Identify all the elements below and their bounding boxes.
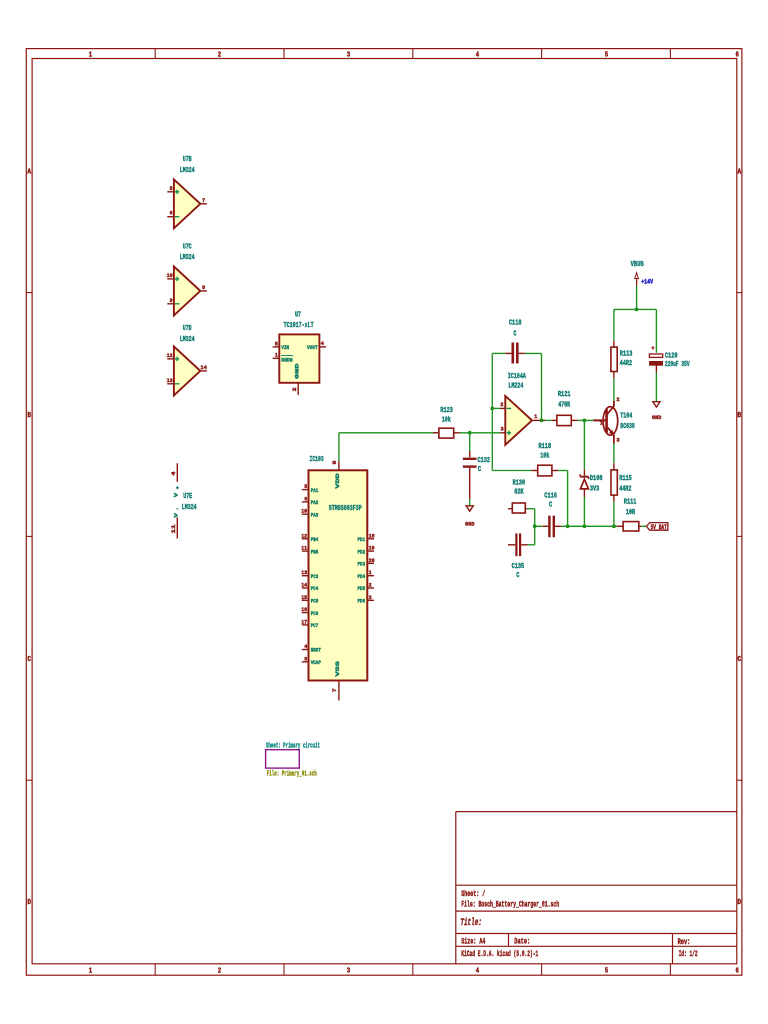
svg-text:GND: GND <box>652 414 662 421</box>
svg-text:C116: C116 <box>544 493 557 501</box>
svg-text:10k: 10k <box>442 416 452 424</box>
svg-text:STM8S003F3P: STM8S003F3P <box>329 505 362 513</box>
svg-text:PD2: PD2 <box>358 548 366 555</box>
svg-text:12: 12 <box>301 532 307 539</box>
svg-text:4: 4 <box>321 340 325 347</box>
svg-text:1: 1 <box>369 569 372 576</box>
svg-text:13: 13 <box>167 377 173 384</box>
svg-text:5: 5 <box>605 968 608 976</box>
svg-text:6: 6 <box>304 495 307 502</box>
svg-text:LM224: LM224 <box>508 382 523 390</box>
svg-text:VSS: VSS <box>334 660 341 676</box>
svg-text:44R2: 44R2 <box>619 486 632 494</box>
svg-text:470R: 470R <box>558 401 570 409</box>
svg-text:10R: 10R <box>626 509 636 517</box>
svg-text:5: 5 <box>170 185 173 192</box>
svg-text:2: 2 <box>369 582 372 589</box>
svg-text:File: Bosch_Battery_Charger_01: File: Bosch_Battery_Charger_01.sch <box>461 900 559 909</box>
svg-text:C: C <box>513 330 517 338</box>
svg-text:82K: 82K <box>514 489 524 497</box>
svg-text:11: 11 <box>301 545 307 552</box>
svg-text:9: 9 <box>331 460 338 465</box>
svg-text:PC5: PC5 <box>311 598 319 605</box>
svg-text:3: 3 <box>501 425 505 432</box>
svg-text:R118: R118 <box>539 443 552 451</box>
svg-text:LM324: LM324 <box>182 504 197 512</box>
svg-text:12: 12 <box>167 352 173 359</box>
svg-text:LM324: LM324 <box>180 254 195 262</box>
svg-text:15: 15 <box>301 594 307 601</box>
svg-text:R113: R113 <box>620 351 633 359</box>
svg-text:C: C <box>516 572 520 580</box>
svg-text:U7: U7 <box>295 311 301 319</box>
svg-text:3: 3 <box>616 437 620 444</box>
svg-text:V: V <box>172 513 179 518</box>
svg-text:VCAP: VCAP <box>311 659 322 666</box>
svg-text:U7B: U7B <box>183 156 192 164</box>
svg-text:3: 3 <box>347 51 350 59</box>
svg-text:5V_BAT: 5V_BAT <box>651 524 667 531</box>
svg-text:File: Primary_01.sch: File: Primary_01.sch <box>267 771 317 779</box>
svg-text:14: 14 <box>200 364 207 371</box>
svg-text:PA3: PA3 <box>311 511 319 518</box>
svg-text:6: 6 <box>736 968 739 976</box>
svg-text:PD4: PD4 <box>358 573 366 580</box>
svg-text:PD5: PD5 <box>358 585 366 592</box>
svg-text:PD6: PD6 <box>358 598 366 605</box>
svg-text:8: 8 <box>202 284 206 291</box>
svg-text:5: 5 <box>605 51 608 59</box>
svg-text:9: 9 <box>170 297 173 304</box>
svg-text:C: C <box>27 656 31 664</box>
svg-text:1: 1 <box>89 51 92 59</box>
svg-text:19: 19 <box>369 545 375 552</box>
svg-text:4: 4 <box>476 51 479 59</box>
svg-text:14: 14 <box>301 582 307 589</box>
svg-text:1: 1 <box>275 352 279 359</box>
svg-text:SHDN: SHDN <box>281 357 293 364</box>
svg-text:17: 17 <box>301 618 307 625</box>
svg-text:3: 3 <box>347 968 350 976</box>
svg-text:PA2: PA2 <box>311 499 319 506</box>
svg-text:R111: R111 <box>624 498 637 506</box>
svg-text:U7C: U7C <box>183 243 192 251</box>
svg-text:PC6: PC6 <box>311 610 319 617</box>
svg-text:C: C <box>478 466 482 474</box>
svg-text:VDD: VDD <box>334 473 341 489</box>
svg-text:10k: 10k <box>540 453 550 461</box>
svg-text:16: 16 <box>301 606 307 613</box>
svg-text:Id: 1/2: Id: 1/2 <box>679 950 698 959</box>
svg-text:BC639: BC639 <box>620 423 635 431</box>
svg-text:Title:: Title: <box>460 917 482 929</box>
svg-text:D108: D108 <box>590 475 603 483</box>
svg-text:C: C <box>738 656 742 664</box>
svg-text:Rev:: Rev: <box>678 938 691 947</box>
svg-text:GND: GND <box>294 363 301 379</box>
svg-text:D: D <box>738 899 742 907</box>
svg-text:3V3: 3V3 <box>590 486 600 494</box>
svg-text:4: 4 <box>170 471 177 476</box>
svg-text:C118: C118 <box>509 320 522 328</box>
svg-text:C135: C135 <box>512 563 525 571</box>
svg-text:C120: C120 <box>665 352 678 360</box>
svg-text:1: 1 <box>534 413 538 420</box>
svg-text:13: 13 <box>301 569 307 576</box>
svg-text:PC7: PC7 <box>311 622 319 629</box>
svg-text:U7D: U7D <box>183 325 192 333</box>
svg-text:20: 20 <box>369 557 375 564</box>
svg-text:-: - <box>176 505 179 512</box>
svg-text:44R2: 44R2 <box>620 360 633 368</box>
svg-text:D: D <box>27 899 31 907</box>
svg-text:T104: T104 <box>620 413 632 421</box>
svg-text:7: 7 <box>331 688 338 693</box>
svg-text:Sheet: /: Sheet: / <box>461 890 485 899</box>
svg-text:4: 4 <box>476 968 479 976</box>
svg-text:PC4: PC4 <box>311 585 319 592</box>
svg-text:R130: R130 <box>513 479 526 487</box>
svg-text:PB5: PB5 <box>311 548 319 555</box>
svg-text:KiCad E.D.A. kicad (5.0.2)-1: KiCad E.D.A. kicad (5.0.2)-1 <box>461 950 538 959</box>
svg-text:Sheet: Primary circuit: Sheet: Primary circuit <box>266 742 320 750</box>
svg-text:+: + <box>651 345 655 352</box>
svg-text:6: 6 <box>170 210 173 217</box>
svg-text:C132: C132 <box>477 457 490 465</box>
svg-text:8: 8 <box>304 655 307 662</box>
svg-text:+14V: +14V <box>641 278 653 286</box>
svg-text:C: C <box>549 502 553 510</box>
svg-text:2: 2 <box>616 396 620 403</box>
svg-text:VOUT: VOUT <box>307 344 318 351</box>
svg-text:11: 11 <box>170 524 177 534</box>
svg-text:6: 6 <box>736 51 739 59</box>
svg-text:2: 2 <box>291 387 298 392</box>
svg-text:7: 7 <box>202 197 206 204</box>
svg-text:IC103: IC103 <box>310 456 325 464</box>
svg-text:NRST: NRST <box>311 647 322 654</box>
svg-text:2: 2 <box>218 51 221 59</box>
svg-text:2: 2 <box>218 968 221 976</box>
svg-text:1: 1 <box>600 420 604 427</box>
svg-text:PD3: PD3 <box>358 561 366 568</box>
svg-text:R115: R115 <box>619 475 632 483</box>
svg-text:IC104A: IC104A <box>508 373 527 381</box>
svg-text:5: 5 <box>304 483 307 490</box>
svg-text:R123: R123 <box>440 407 453 415</box>
svg-text:R121: R121 <box>558 391 571 399</box>
svg-text:Size: A4: Size: A4 <box>461 938 485 947</box>
svg-text:TC1017-xLT: TC1017-xLT <box>284 322 314 330</box>
svg-text:U7E: U7E <box>183 493 192 501</box>
svg-text:LM324: LM324 <box>180 336 195 344</box>
svg-text:VBUS: VBUS <box>631 261 645 269</box>
svg-text:5: 5 <box>275 340 279 347</box>
svg-text:2: 2 <box>500 401 504 408</box>
svg-text:PC3: PC3 <box>311 573 319 580</box>
svg-text:10: 10 <box>167 272 173 279</box>
svg-text:Date:: Date: <box>514 938 530 947</box>
svg-text:VIN: VIN <box>281 344 289 351</box>
svg-text:GND: GND <box>465 520 475 527</box>
svg-text:PA1: PA1 <box>311 487 319 494</box>
svg-text:+: + <box>176 485 180 492</box>
svg-text:1: 1 <box>89 968 92 976</box>
svg-text:LM324: LM324 <box>180 167 195 175</box>
svg-text:PB4: PB4 <box>311 536 319 543</box>
svg-text:3: 3 <box>369 594 372 601</box>
svg-text:220uF 35V: 220uF 35V <box>665 361 690 369</box>
svg-text:PD1: PD1 <box>358 536 366 543</box>
svg-text:4: 4 <box>304 643 307 650</box>
svg-text:18: 18 <box>369 532 375 539</box>
svg-text:10: 10 <box>301 508 307 515</box>
svg-text:V: V <box>172 492 179 497</box>
